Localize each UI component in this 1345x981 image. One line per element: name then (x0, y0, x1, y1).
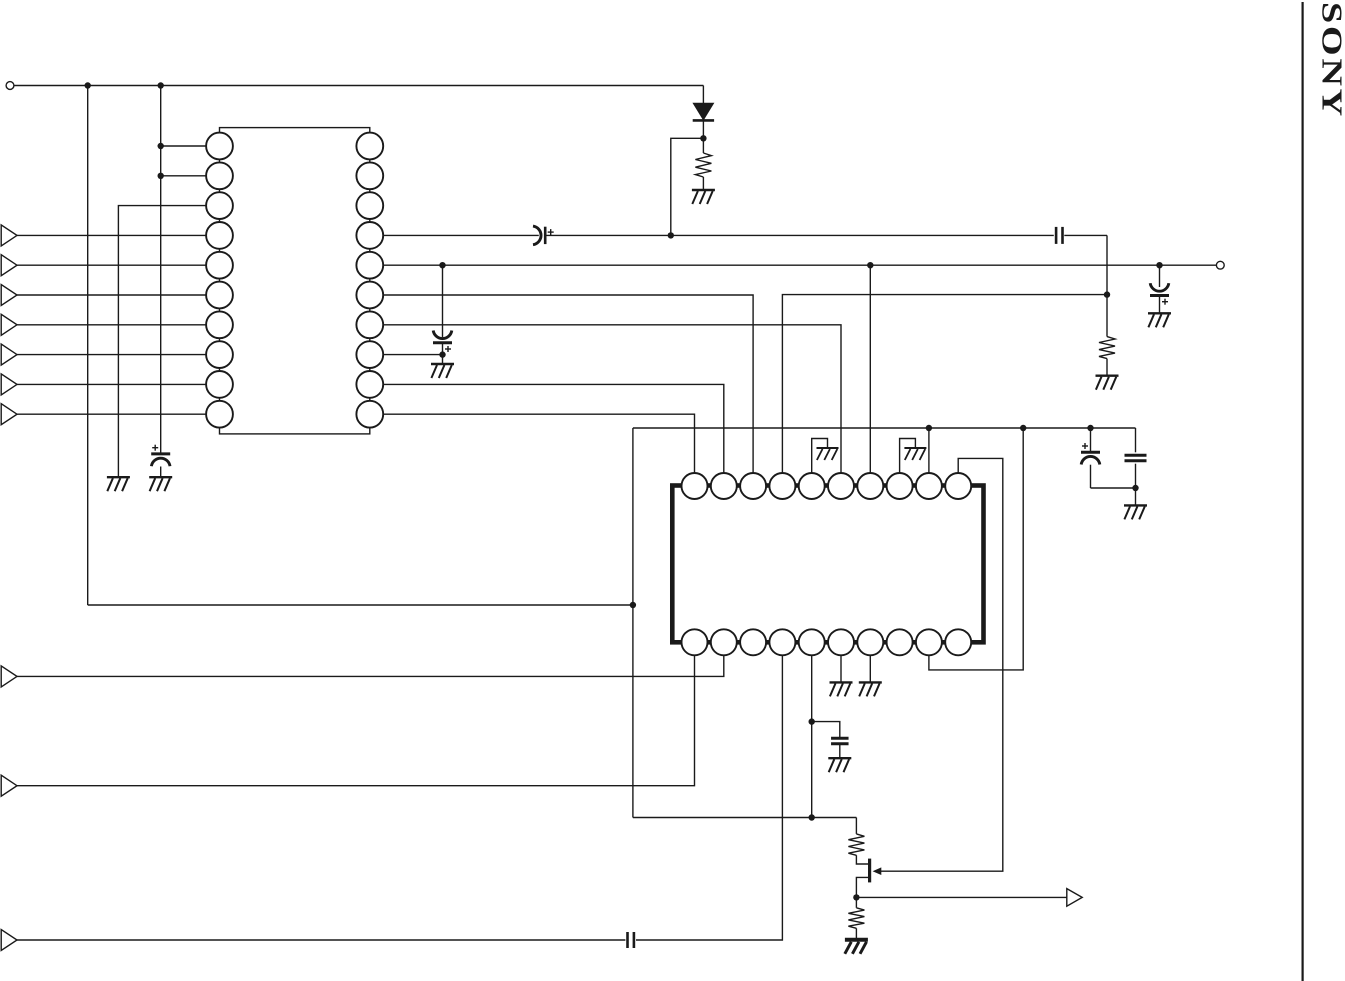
input arrow IN6 (1, 374, 17, 395)
ground (bold) (845, 940, 868, 954)
transistor Q1 (868, 859, 871, 883)
U1 pin 2 (206, 162, 233, 189)
U2 top pin 1 (682, 473, 708, 499)
wire U2 pin16 to ground (840, 642, 842, 682)
junction dot (853, 894, 859, 900)
wire to R3 (855, 818, 857, 834)
wire U1 pin14 to U2 pin6 (370, 325, 841, 486)
U2 bottom pin 15 (799, 629, 825, 655)
wire to U1 pin2 (161, 175, 220, 177)
wire C7 to ground (1159, 296, 1161, 314)
resistor R2 (1099, 337, 1115, 359)
junction dot (158, 82, 164, 88)
ground (828, 758, 851, 772)
wire to C7 (1159, 265, 1161, 287)
U1 pin 10 (206, 401, 233, 428)
wire C1 to C4 (545, 234, 1054, 236)
ground (107, 477, 130, 491)
junction dot (439, 262, 445, 268)
U2 top pin 7 (857, 473, 883, 499)
U2 bottom pin 12 (711, 629, 737, 655)
U2 bottom pin 17 (857, 629, 883, 655)
wire to C8 (812, 722, 840, 739)
U1 pin 5 (206, 252, 233, 279)
wire U2 pin12 to IN8 (17, 642, 724, 676)
wire U2 pin5 ground stub (812, 439, 828, 487)
wire C6 to gnd node (1135, 464, 1137, 488)
junction dot (809, 718, 815, 724)
U1 pin 16 (356, 252, 383, 279)
input arrow IN5 (1, 344, 17, 365)
U1 pin 1 (206, 133, 233, 160)
wire to R4 (855, 897, 857, 907)
ground (431, 364, 454, 378)
ground (1148, 313, 1171, 327)
input arrow IN8 (1, 666, 17, 687)
wire to U2 pin9 (928, 428, 930, 486)
junction dot (867, 262, 873, 268)
input arrow IN4 (1, 314, 17, 335)
ground (149, 477, 172, 491)
wire to R3 (633, 817, 857, 819)
wire IN2 to U1 (17, 264, 220, 266)
junction dot (158, 173, 164, 179)
resistor R4 (848, 908, 864, 929)
U1 pin 11 (356, 401, 383, 428)
wire to C6 (1135, 428, 1137, 452)
divider rule (1301, 2, 1303, 981)
diode D1 (693, 103, 714, 153)
Q1 gate arrowhead (873, 867, 882, 875)
U2 bottom pin 18 (887, 629, 913, 655)
output arrow OUT (1067, 889, 1082, 907)
wire R2 to ground (1106, 359, 1108, 376)
wire top feed (14, 85, 704, 87)
U2 top pin 4 (769, 473, 795, 499)
U1 pin 3 (206, 192, 233, 219)
wire U2 pin4 to R2 node (782, 295, 1107, 486)
resistor R3 (848, 834, 864, 855)
wire to C2 (442, 265, 444, 337)
wire U1 pin3 to ground (118, 206, 219, 478)
ground (692, 190, 715, 204)
wire supply net y428 (633, 427, 1136, 429)
wire to C5 (1090, 428, 1092, 452)
capacitor C5 (electrolytic) (1081, 452, 1100, 464)
U1 pin 20 (356, 133, 383, 160)
U1 pin 17 (356, 222, 383, 249)
ground (U2 pin5) (817, 448, 839, 460)
wire IN6 to U1 (17, 383, 220, 385)
resistor R1 (695, 153, 711, 177)
wire U2 pin14 down to C9 (636, 642, 782, 940)
capacitor C2 (electrolytic) (433, 331, 452, 343)
U2 top pin 2 (711, 473, 737, 499)
wire IN7 to U1 (17, 413, 220, 415)
input arrow IN2 (1, 255, 17, 276)
wire vertical to C3 (160, 86, 162, 456)
wire to ground (1135, 488, 1137, 505)
junction dot (158, 143, 164, 149)
ground (U2 pin8) (904, 448, 926, 460)
wire U2 pin11 to IN9 (17, 642, 695, 785)
capacitor C9 (628, 932, 634, 948)
junction dot (1156, 262, 1162, 268)
svg-text:SONY: SONY (1316, 2, 1345, 119)
capacitor C1 (electrolytic, horizontal) (533, 226, 545, 245)
input arrow IN3 (1, 285, 17, 306)
U2 top pin 6 (828, 473, 854, 499)
wire U1 pin17 to C1 (370, 234, 539, 236)
wire U1 pin15 to U2 pin3 (370, 295, 753, 486)
capacitor C7 (electrolytic) (1150, 283, 1169, 295)
capacitor C4 (1056, 227, 1062, 244)
input arrow IN7 (1, 404, 17, 425)
U2 top pin 3 (740, 473, 766, 499)
wire C4 to corner (1064, 234, 1107, 236)
U1 pin 4 (206, 222, 233, 249)
U2 bottom pin 16 (828, 629, 854, 655)
wire supply down left (632, 428, 634, 818)
wire (160, 467, 162, 478)
wire U1 pin16 to terminal J2 (370, 264, 1216, 266)
U2 bottom pin 13 (740, 629, 766, 655)
wire IN3 to U1 (17, 294, 220, 296)
terminal J1 (input) (6, 82, 14, 90)
wire U1 pin13 to C2 node (370, 354, 443, 356)
wire output (856, 896, 1066, 898)
junction dot (85, 82, 91, 88)
wire node to R2 (1106, 295, 1108, 337)
wire C8 to ground (839, 744, 841, 758)
U1 pin 13 (356, 341, 383, 368)
wire U2 pin15 down (811, 642, 813, 817)
wire feed to D1 anode (702, 86, 704, 104)
wire C9 to IN10 (17, 939, 625, 941)
op-amp U1 (left IC body) (220, 128, 370, 434)
ground (1124, 505, 1147, 519)
input arrow IN10 (1, 930, 17, 951)
junction dot (926, 425, 932, 431)
junction dot (1087, 425, 1093, 431)
U1 pin 15 (356, 282, 383, 309)
capacitor C8 (831, 738, 849, 744)
wire U2 pin10 to Q1 gate (878, 458, 1003, 871)
wire U1 pin11 to U2 pin1 (370, 414, 695, 486)
wire Q1 source down (856, 877, 868, 897)
U1 pin 12 (356, 371, 383, 398)
ground (U2 pin16) (830, 682, 853, 696)
wire to U2 pin7 (869, 265, 871, 486)
wire R3 to Q1 drain (856, 855, 868, 864)
junction dot (1020, 425, 1026, 431)
ground (U2 pin17) (859, 682, 882, 696)
capacitor C3 (electrolytic) (151, 454, 170, 466)
junction dot (809, 814, 815, 820)
U2 bottom pin 20 (945, 629, 971, 655)
wire C2 to ground (442, 343, 444, 364)
U1 pin 7 (206, 311, 233, 338)
wire R1 to ground (702, 177, 704, 190)
wire horizontal to node B (88, 604, 633, 606)
wire to U1 pin1 (161, 145, 220, 147)
junction dot (668, 232, 674, 238)
wire U2 pin19 loop to supply net (929, 428, 1023, 670)
input arrow IN1 (1, 225, 17, 246)
U2 bottom pin 14 (769, 629, 795, 655)
U1 pin 14 (356, 311, 383, 338)
wire U1 pin12 to U2 pin2 (370, 384, 724, 486)
U2 bottom pin 19 (916, 629, 942, 655)
wire vertical bus A (87, 86, 89, 606)
junction dot (700, 135, 706, 141)
node B junction dot (630, 602, 636, 608)
input arrow IN9 (1, 775, 17, 796)
wire IN4 to U1 (17, 324, 220, 326)
junction dot (1104, 291, 1110, 297)
U1 pin 18 (356, 192, 383, 219)
U1 pin 6 (206, 282, 233, 309)
wire down to node R2 (1106, 235, 1108, 294)
U1 pin 9 (206, 371, 233, 398)
U2 top pin 8 (887, 473, 913, 499)
U2 top pin 10 (945, 473, 971, 499)
wire U2 pin8 ground stub (900, 439, 916, 487)
wire diode branch (671, 138, 704, 235)
U2 top pin 5 (799, 473, 825, 499)
U1 pin 8 (206, 341, 233, 368)
U2 bottom pin 11 (682, 629, 708, 655)
wire R4 to ground (855, 928, 857, 940)
op-amp U2 (right IC body, bold) (672, 486, 983, 643)
wire C5 to gnd node (1090, 465, 1092, 488)
wire U2 pin17 to ground (869, 642, 871, 682)
wire (1091, 487, 1136, 489)
U2 top pin 9 (916, 473, 942, 499)
capacitor C6 (1125, 455, 1147, 461)
terminal J2 (output) (1216, 261, 1224, 269)
junction dot (1132, 485, 1138, 491)
ground (1096, 376, 1119, 390)
junction dot (439, 351, 445, 357)
wire IN1 to U1 (17, 234, 220, 236)
wire IN5 to U1 (17, 354, 220, 356)
U1 pin 19 (356, 162, 383, 189)
